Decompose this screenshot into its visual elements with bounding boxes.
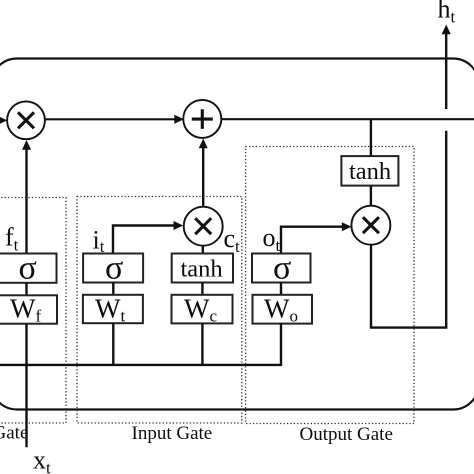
wire: cell state line entering from left	[0, 119, 1, 121]
sigma box (input)	[83, 254, 143, 283]
wire: input sigma elbow to M2 with arrowhead	[113, 226, 174, 254]
W_f box	[0, 295, 57, 323]
wire: M1 to ADD node	[45, 118, 175, 120]
wire: cell state line to right edge	[222, 118, 474, 120]
wire: tanh down to M3	[370, 186, 372, 206]
forget gate dashed box	[0, 198, 66, 424]
svg-text:σ: σ	[273, 250, 291, 287]
wire: W_t down to data line	[112, 323, 114, 366]
svg-text:tanh: tanh	[349, 158, 391, 185]
wire: M2 up to ADD node with arrowhead	[202, 147, 204, 206]
wire: M3 down, right, and up to h_t (lower segment)	[371, 131, 446, 328]
multiply node M3 (output)	[351, 206, 390, 245]
multiply node M1 (forget)	[7, 101, 45, 139]
svg-text:σ: σ	[105, 250, 123, 287]
svg-text:σ: σ	[19, 250, 37, 287]
wire: cell line down to tanh (output)	[370, 120, 372, 157]
svg-text:tanh: tanh	[181, 256, 223, 283]
tanh box (input)	[172, 254, 233, 283]
wire: forget sigma up to M1 with arrowhead	[25, 149, 27, 254]
LSTM cell rounded rectangle	[0, 59, 474, 410]
wire: W_c down to data line	[201, 323, 203, 366]
svg-text:Output Gate: Output Gate	[300, 424, 393, 445]
W_t box	[83, 295, 143, 323]
output gate dashed box	[246, 147, 414, 424]
W_c box	[172, 295, 233, 324]
tanh box (output)	[341, 156, 398, 186]
wire: sigma to W_f	[25, 283, 27, 296]
sigma box (output)	[252, 254, 311, 283]
wire: tanh (input) to M2	[202, 246, 204, 254]
wire: sigma to W_o	[280, 283, 282, 296]
svg-text:Forget Gate: Forget Gate	[0, 423, 28, 444]
svg-text:Input Gate: Input Gate	[132, 423, 213, 444]
arrowhead into ADD node	[174, 115, 184, 124]
multiply node M2 (input)	[184, 207, 223, 246]
arrowhead into multiply node M1	[0, 116, 7, 125]
wire: tanh to W_c	[201, 283, 203, 296]
wire: W_o down to data line end	[280, 323, 282, 366]
wire: W_f down to x_t input	[25, 324, 27, 448]
sigma box (forget)	[0, 254, 57, 283]
add node A1	[183, 100, 221, 138]
wire: output sigma elbow to M3 with arrowhead	[281, 227, 343, 254]
wire: sigma to W_t	[112, 283, 114, 296]
wire: h_t output segment above cell line with arrowhead	[445, 33, 447, 109]
input gate dashed box	[77, 197, 242, 424]
wire: horizontal data line from left edge to below W_o	[0, 364, 281, 366]
W_o box	[253, 295, 313, 324]
